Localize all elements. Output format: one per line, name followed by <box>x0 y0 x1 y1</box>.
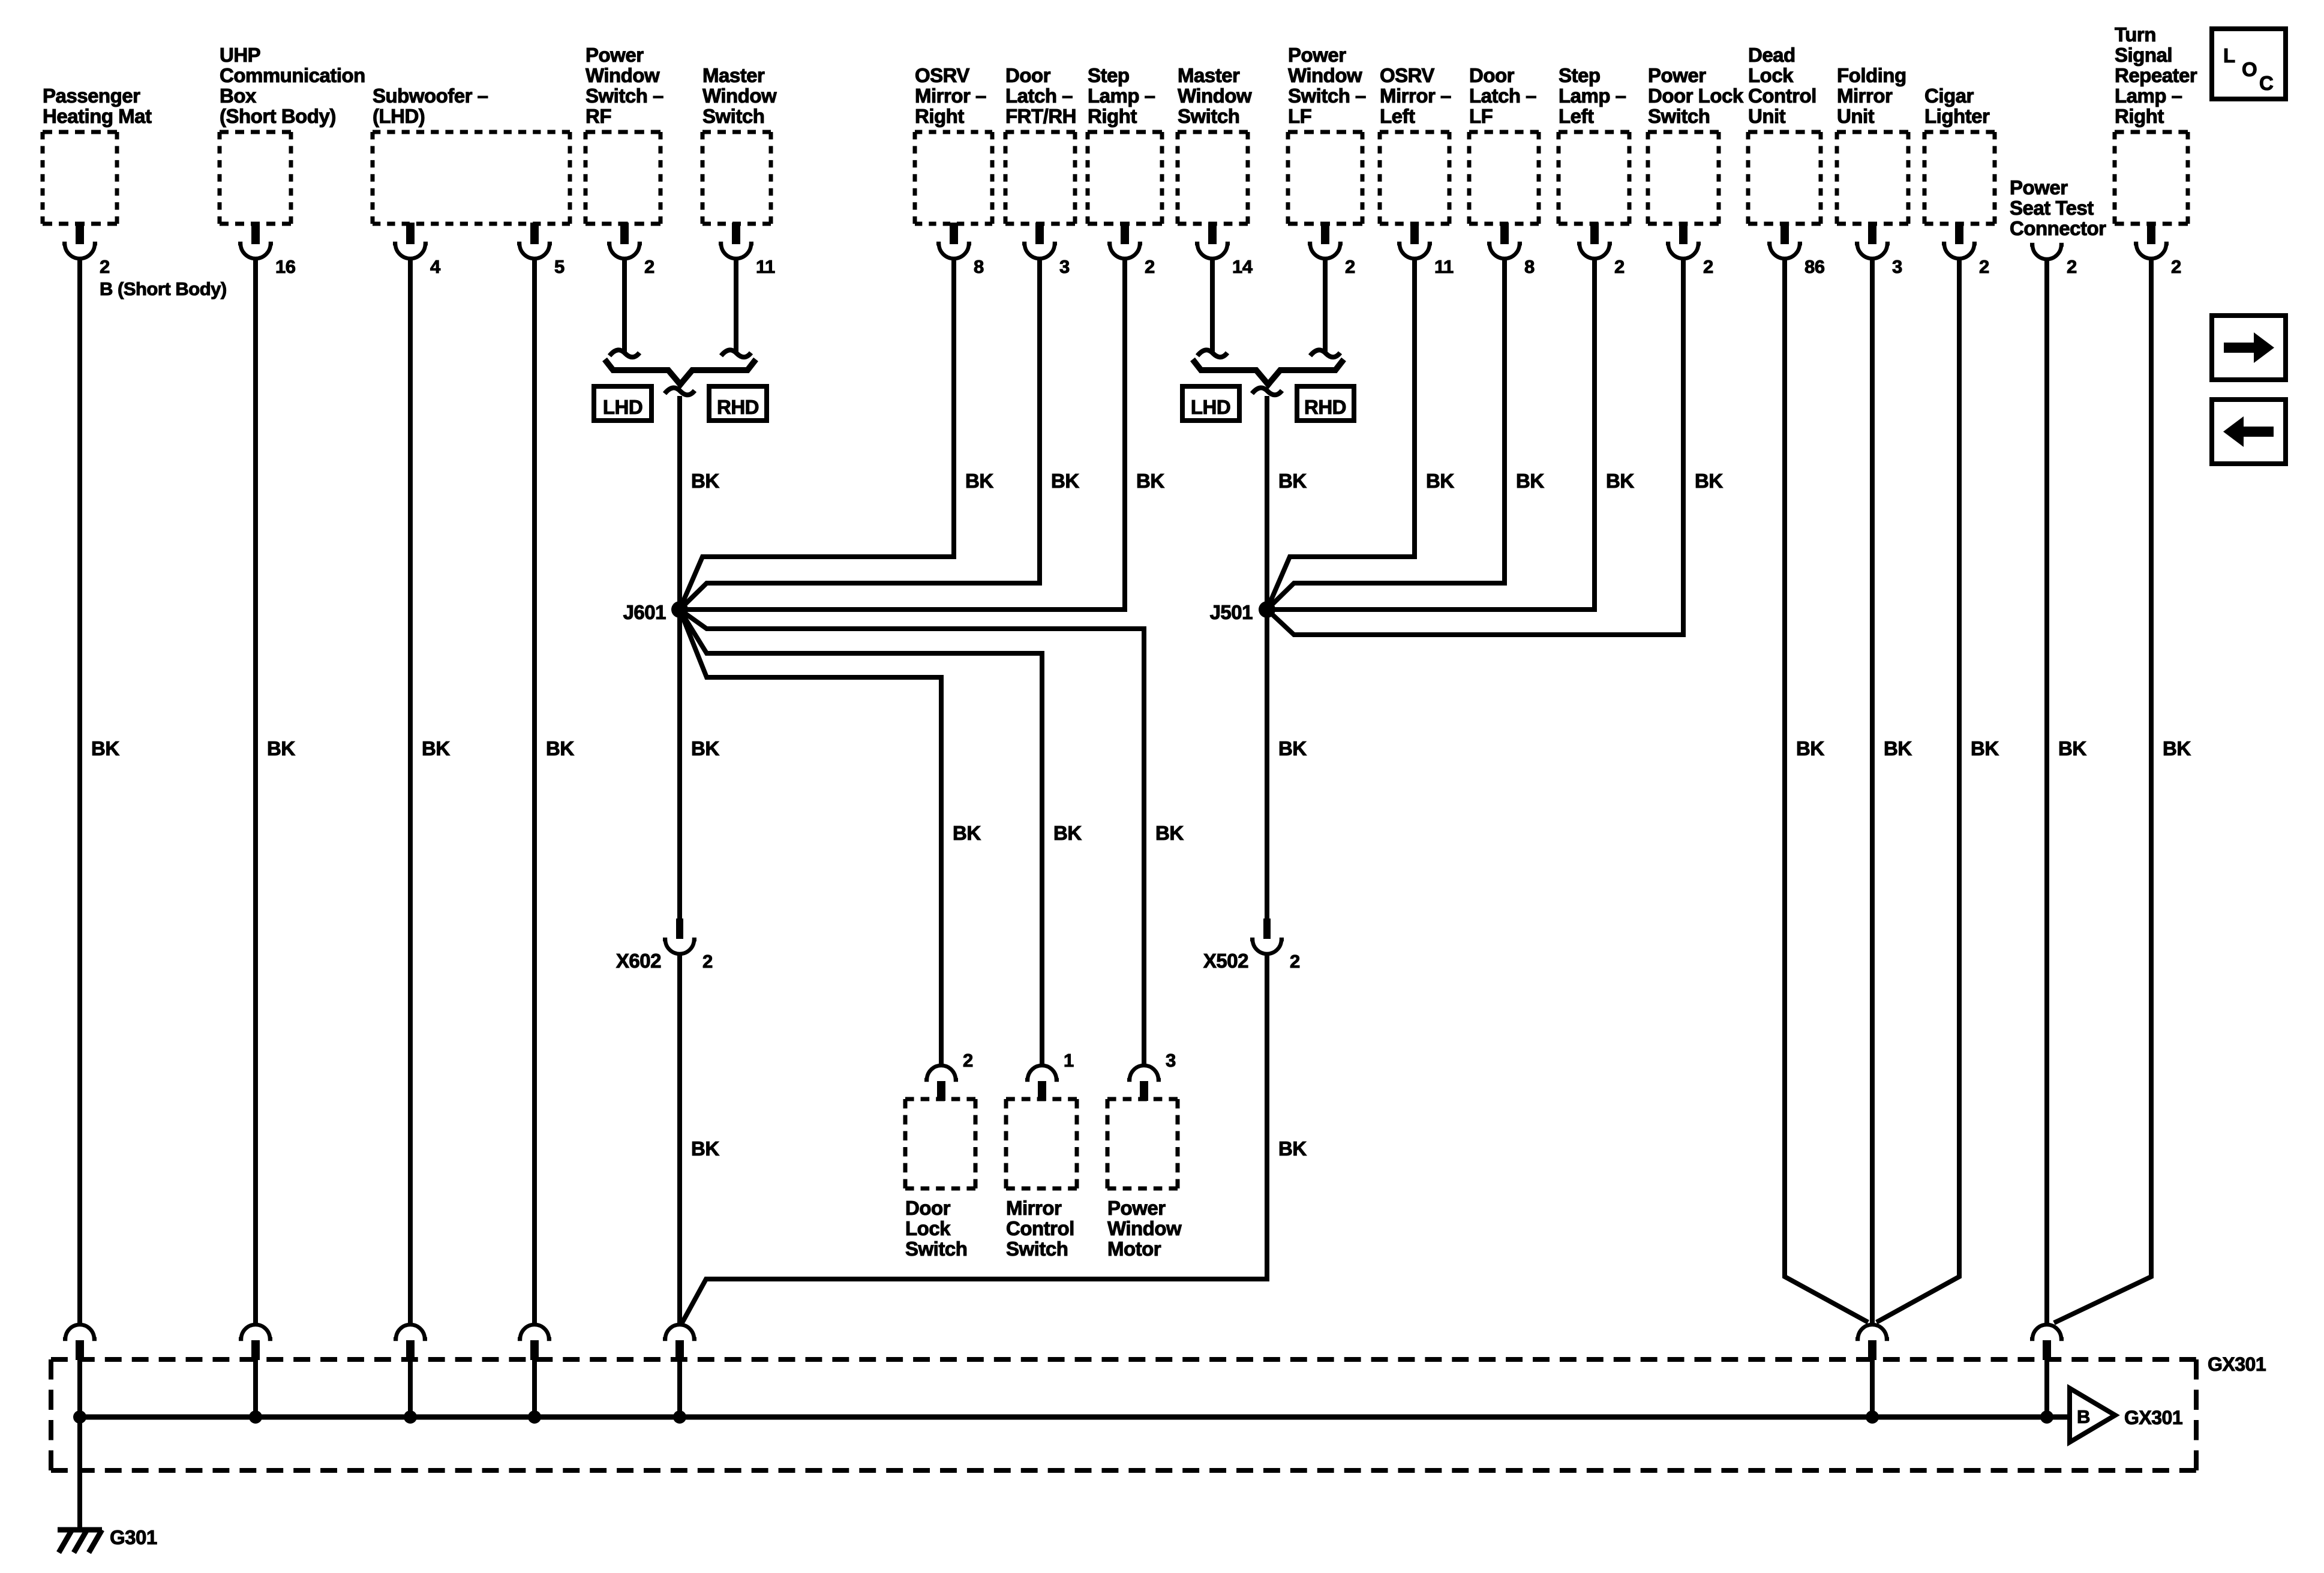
connector into GX301: Power Seat/Turn Signal <box>2030 1325 2064 1417</box>
svg-text:16: 16 <box>275 256 296 277</box>
svg-text:Subwoofer –: Subwoofer – <box>373 85 488 107</box>
svg-text:Unit: Unit <box>1748 105 1786 127</box>
svg-text:Switch: Switch <box>1178 105 1239 127</box>
svg-text:LF: LF <box>1469 105 1493 127</box>
wire: Power Window Switch RF to LHD brace <box>609 257 639 357</box>
svg-text:Motor: Motor <box>1107 1238 1161 1260</box>
svg-text:BK: BK <box>2058 737 2086 760</box>
junction dot on bus at x=426 <box>249 1410 262 1424</box>
svg-text:BK: BK <box>1053 822 1082 844</box>
svg-text:Left: Left <box>1380 105 1415 127</box>
component box: UHP Communication Box <box>220 44 365 277</box>
wire BK: UHP Communication Box to GX301 <box>253 257 258 1323</box>
option tag: RHD (left) <box>709 386 767 421</box>
svg-text:BK: BK <box>691 737 719 760</box>
svg-text:J601: J601 <box>623 601 666 623</box>
svg-text:RHD: RHD <box>717 396 759 418</box>
svg-text:11: 11 <box>756 256 775 277</box>
wire colour label BK at (1590,813) <box>965 470 993 492</box>
svg-text:BK: BK <box>1884 737 1912 760</box>
component box: Power Window Motor <box>1107 1050 1182 1260</box>
svg-text:3: 3 <box>1892 256 1902 277</box>
wire: OSRV Mirror Right to J601 <box>680 257 954 610</box>
brace: LHD/RHD option merge (right) <box>1193 359 1344 395</box>
connector: Power Seat Test Connector <box>2010 176 2106 277</box>
svg-text:Right: Right <box>915 105 964 127</box>
wire colour label BK at (2358,813) <box>1426 470 1454 492</box>
component box: Cigar Lighter <box>1924 85 1995 277</box>
svg-text:Connector: Connector <box>2010 217 2106 239</box>
wire colour label BK at (133,1259) <box>91 737 119 760</box>
svg-text:Power: Power <box>1288 44 1346 66</box>
wire BK: J501 to X502 <box>1265 610 1269 918</box>
wire: Power Door Lock Switch to J501 <box>1267 257 1683 635</box>
svg-text:(Short Body): (Short Body) <box>220 105 336 127</box>
component box: Step Lamp - Left <box>1559 64 1629 277</box>
svg-text:BK: BK <box>1516 470 1544 492</box>
component box: Turn Signal Repeater Lamp - Right <box>2115 23 2197 277</box>
component box: OSRV Mirror - Left <box>1380 64 1454 277</box>
svg-text:Cigar: Cigar <box>1924 85 1974 107</box>
wire colour label BK at (1875,813) <box>1136 470 1164 492</box>
svg-text:3: 3 <box>1166 1050 1176 1071</box>
connector into GX301: X602 branch <box>663 1325 696 1417</box>
svg-text:Power: Power <box>1107 1197 1166 1219</box>
wire BK: X602 to GX301 <box>677 953 682 1323</box>
component box: Mirror Control Switch <box>1006 1050 1077 1260</box>
svg-text:Window: Window <box>1107 1217 1182 1239</box>
svg-text:11: 11 <box>1434 256 1454 277</box>
wire colour label BK at (2508,813) <box>1516 470 1544 492</box>
svg-text:Lamp –: Lamp – <box>1559 85 1626 107</box>
svg-text:4: 4 <box>430 256 441 277</box>
wire BK: Subwoofer pin 4 to GX301 <box>408 257 413 1323</box>
svg-text:Step: Step <box>1559 64 1601 86</box>
svg-text:BK: BK <box>91 737 119 760</box>
connector into GX301: UHP Communication Box <box>239 1325 272 1417</box>
svg-text:BK: BK <box>546 737 574 760</box>
svg-text:Switch: Switch <box>702 105 764 127</box>
wire: Step Lamp Left to J501 <box>1267 257 1595 610</box>
ground splice pack GX301 (dashed outline) <box>51 1353 2266 1470</box>
svg-text:Door Lock: Door Lock <box>1648 85 1744 107</box>
svg-text:Power: Power <box>1648 64 1706 86</box>
svg-text:Turn: Turn <box>2115 23 2156 46</box>
wire colour label BK at (3121,1259) <box>1884 737 1912 760</box>
svg-text:Master: Master <box>1178 64 1240 86</box>
wire BK: Turn Signal Repeater Lamp drop <box>2054 257 2151 1323</box>
component box: Subwoofer (LHD) <box>373 85 570 277</box>
svg-text:Lamp –: Lamp – <box>2115 85 2182 107</box>
LOC legend box <box>2212 29 2286 99</box>
wire: J601 to Mirror Control Switch <box>680 610 1042 1064</box>
svg-text:Seat Test: Seat Test <box>2010 197 2094 219</box>
wire colour label BK at (1733,813) <box>1051 470 1079 492</box>
wire BK: brace to J501 <box>1265 396 1269 610</box>
svg-text:Master: Master <box>702 64 765 86</box>
svg-text:Power: Power <box>585 44 644 66</box>
wire colour label BK at (1133,1926) <box>691 1137 719 1160</box>
svg-text:RHD: RHD <box>1304 396 1346 418</box>
svg-text:GX301: GX301 <box>2208 1353 2266 1375</box>
wire colour label BK at (1133,1259) <box>691 737 719 760</box>
component box: Folding Mirror Unit <box>1837 64 1908 277</box>
svg-text:8: 8 <box>974 256 984 277</box>
wire BK: Power Seat Test Connector drop <box>2044 259 2049 1323</box>
splice J601 <box>623 601 688 623</box>
wire BK: Dead Lock Control Unit drop <box>1785 257 1868 1322</box>
svg-text:2: 2 <box>1145 256 1155 277</box>
wire: Door Latch LF to J501 <box>1267 257 1505 610</box>
wire BK: Folding Mirror Unit drop <box>1870 257 1875 1323</box>
svg-text:BK: BK <box>267 737 295 760</box>
svg-text:2: 2 <box>644 256 654 277</box>
junction dot on bus at x=3121 <box>1866 1410 1879 1424</box>
left arrow box <box>2212 400 2286 464</box>
svg-text:86: 86 <box>1804 256 1825 277</box>
junction dot on bus at x=3412 <box>2040 1410 2053 1424</box>
svg-text:LHD: LHD <box>603 396 642 418</box>
junction dot on bus at x=684 <box>404 1410 417 1424</box>
wire BK: brace to J601 <box>677 396 682 610</box>
wire: Master Window Switch to RHD brace <box>721 257 751 357</box>
svg-text:2: 2 <box>2171 256 2181 277</box>
wire colour label BK at (1737,1400) <box>1053 822 1082 844</box>
wire colour label BK at (891,1259) <box>546 737 574 760</box>
svg-text:O: O <box>2242 58 2257 80</box>
connector into GX301: Subwoofer pin 5 <box>518 1325 551 1417</box>
svg-text:BK: BK <box>1155 822 1184 844</box>
svg-text:GX301: GX301 <box>2124 1407 2182 1428</box>
svg-text:BK: BK <box>953 822 981 844</box>
svg-text:BK: BK <box>1051 470 1079 492</box>
svg-text:OSRV: OSRV <box>1380 64 1434 86</box>
svg-text:2: 2 <box>100 256 110 277</box>
svg-text:LF: LF <box>1288 105 1311 127</box>
wire: OSRV Mirror Left to J501 <box>1267 257 1415 610</box>
junction dot on bus at x=1133 <box>673 1410 686 1424</box>
wire colour label BK at (1133,813) <box>691 470 719 492</box>
svg-text:BK: BK <box>1278 737 1307 760</box>
wire: Power Window Switch LF to brace <box>1310 257 1340 357</box>
wire: Door Latch FRT/RH to J601 <box>680 257 1040 610</box>
svg-text:Communication: Communication <box>220 64 365 86</box>
component box: Dead Lock Control Unit <box>1748 44 1825 277</box>
svg-text:G301: G301 <box>110 1526 157 1548</box>
wire: J601 to Power Window Motor <box>680 610 1144 1064</box>
svg-text:1: 1 <box>1064 1050 1074 1071</box>
svg-text:BK: BK <box>1695 470 1723 492</box>
svg-text:BK: BK <box>1426 470 1454 492</box>
svg-text:2: 2 <box>1979 256 1989 277</box>
svg-text:BK: BK <box>422 737 450 760</box>
wire colour label BK at (1907,1400) <box>1155 822 1184 844</box>
connector into GX301: Passenger Heating Mat <box>63 1325 97 1417</box>
svg-text:J501: J501 <box>1210 601 1253 623</box>
option tag: LHD (right) <box>1182 386 1239 421</box>
svg-text:BK: BK <box>691 470 719 492</box>
svg-text:Latch –: Latch – <box>1005 85 1073 107</box>
svg-text:(LHD): (LHD) <box>373 105 425 127</box>
svg-text:2: 2 <box>1703 256 1713 277</box>
svg-text:FRT/RH: FRT/RH <box>1005 105 1076 127</box>
svg-text:2: 2 <box>1290 951 1300 972</box>
component box: Master Window Switch (LHD) <box>1178 64 1253 277</box>
svg-text:X502: X502 <box>1203 950 1248 972</box>
connector into GX301: Subwoofer pin 4 <box>394 1325 427 1417</box>
ground bus wire <box>80 1415 2069 1420</box>
svg-text:Dead: Dead <box>1748 44 1795 66</box>
svg-text:OSRV: OSRV <box>915 64 969 86</box>
option tag: RHD (right) <box>1297 386 1354 421</box>
svg-text:BK: BK <box>1796 737 1824 760</box>
splice J501 <box>1210 601 1275 623</box>
wire colour label BK at (2112,1926) <box>1278 1137 1307 1160</box>
svg-text:Mirror: Mirror <box>1006 1197 1062 1219</box>
svg-text:Door: Door <box>1469 64 1515 86</box>
svg-text:LHD: LHD <box>1191 396 1230 418</box>
svg-text:Heating Mat: Heating Mat <box>43 105 152 127</box>
wire: GX301 to G301 ground <box>77 1417 82 1529</box>
svg-text:Window: Window <box>702 85 777 107</box>
svg-text:BK: BK <box>1971 737 1999 760</box>
svg-text:Switch: Switch <box>905 1238 967 1260</box>
pin label: B (Short Body) <box>100 278 227 299</box>
inline connector X502 pin 2 <box>1203 918 1300 972</box>
svg-text:Unit: Unit <box>1837 105 1875 127</box>
svg-text:Step: Step <box>1088 64 1130 86</box>
component box: Power Window Switch - RF <box>585 44 663 277</box>
svg-text:Passenger: Passenger <box>43 85 140 107</box>
connector into GX301: Dead Lock/Folding Mirror/Cigar Lighter <box>1855 1325 1889 1417</box>
wire: Step Lamp Right to J601 <box>680 257 1125 610</box>
svg-text:Left: Left <box>1559 105 1594 127</box>
wire colour label BK at (3412,1259) <box>2058 737 2086 760</box>
svg-text:Lighter: Lighter <box>1924 105 1990 127</box>
wire BK: Cigar Lighter drop <box>1876 257 1959 1322</box>
svg-text:Mirror: Mirror <box>1837 85 1893 107</box>
component box: OSRV Mirror - Right <box>915 64 992 277</box>
wire colour label BK at (2658,813) <box>1606 470 1634 492</box>
wire colour label BK at (2112,813) <box>1278 470 1307 492</box>
svg-text:Right: Right <box>1088 105 1137 127</box>
wire colour label BK at (684,1259) <box>422 737 450 760</box>
svg-text:RF: RF <box>585 105 611 127</box>
svg-text:Switch –: Switch – <box>585 85 663 107</box>
wire BK: Subwoofer pin 5 to GX301 <box>532 257 537 1323</box>
svg-text:Door: Door <box>1005 64 1051 86</box>
svg-text:B: B <box>2077 1406 2090 1427</box>
component box: Door Latch - FRT/RH <box>1005 64 1076 277</box>
svg-text:3: 3 <box>1059 256 1070 277</box>
svg-text:2: 2 <box>1614 256 1625 277</box>
svg-text:BK: BK <box>1278 1137 1307 1160</box>
brace: LHD/RHD option merge (left) <box>605 359 756 395</box>
svg-text:B (Short Body): B (Short Body) <box>100 278 227 299</box>
svg-text:Right: Right <box>2115 105 2164 127</box>
svg-text:Door: Door <box>905 1197 951 1219</box>
svg-text:Lamp –: Lamp – <box>1088 85 1155 107</box>
svg-text:BK: BK <box>1278 470 1307 492</box>
svg-text:Signal: Signal <box>2115 44 2172 66</box>
svg-text:Control: Control <box>1006 1217 1074 1239</box>
wire colour label BK at (2975,1259) <box>1796 737 1824 760</box>
wire colour label BK at (2112,1259) <box>1278 737 1307 760</box>
svg-text:L: L <box>2223 44 2235 67</box>
component box: Power Window Switch - LF <box>1288 44 1366 277</box>
svg-text:2: 2 <box>702 951 713 972</box>
svg-text:Control: Control <box>1748 85 1816 107</box>
junction dot on bus at x=133 <box>73 1410 86 1424</box>
inline connector X602 pin 2 <box>616 918 713 972</box>
wire BK: Passenger Heating Mat to GX301 <box>77 257 82 1323</box>
svg-text:BK: BK <box>1606 470 1634 492</box>
svg-text:BK: BK <box>1136 470 1164 492</box>
svg-text:Power: Power <box>2010 176 2068 199</box>
svg-text:BK: BK <box>691 1137 719 1160</box>
svg-text:Folding: Folding <box>1837 64 1906 86</box>
component box: Passenger Heating Mat <box>43 85 152 277</box>
svg-text:Switch –: Switch – <box>1288 85 1366 107</box>
svg-text:C: C <box>2259 72 2273 94</box>
svg-text:2: 2 <box>2067 256 2077 277</box>
svg-text:BK: BK <box>2163 737 2191 760</box>
svg-text:BK: BK <box>965 470 993 492</box>
option tag: LHD (left) <box>594 386 651 421</box>
svg-text:Window: Window <box>1288 64 1362 86</box>
svg-text:Window: Window <box>1178 85 1252 107</box>
svg-text:2: 2 <box>963 1050 973 1071</box>
component box: Step Lamp - Right <box>1088 64 1162 277</box>
ground symbol G301 <box>58 1526 157 1553</box>
wire: J601 to Door Lock Switch <box>680 610 941 1064</box>
svg-text:Switch: Switch <box>1006 1238 1068 1260</box>
wire BK: J601 to X602 <box>677 610 682 918</box>
svg-text:Repeater: Repeater <box>2115 64 2197 86</box>
wire colour label BK at (426,1259) <box>267 737 295 760</box>
svg-text:8: 8 <box>1524 256 1535 277</box>
net arrow: B > GX301 <box>2070 1388 2182 1442</box>
wire colour label BK at (3586,1259) <box>2163 737 2191 760</box>
component box: Door Latch - LF <box>1469 64 1539 277</box>
svg-text:Mirror –: Mirror – <box>915 85 986 107</box>
component box: Power Door Lock Switch <box>1648 64 1744 277</box>
wire colour label BK at (2806,813) <box>1695 470 1723 492</box>
svg-text:UHP: UHP <box>220 44 260 66</box>
junction dot on bus at x=891 <box>528 1410 541 1424</box>
svg-text:Mirror –: Mirror – <box>1380 85 1451 107</box>
component box: Door Lock Switch <box>905 1050 975 1260</box>
svg-text:Lock: Lock <box>1748 64 1794 86</box>
component box: Master Window Switch (RHD) <box>702 64 777 277</box>
svg-text:Switch: Switch <box>1648 105 1710 127</box>
wire BK: X502 down and over to GX301 <box>682 953 1267 1323</box>
right arrow box <box>2212 316 2286 380</box>
svg-text:Window: Window <box>585 64 660 86</box>
svg-text:14: 14 <box>1232 256 1253 277</box>
svg-text:Box: Box <box>220 85 257 107</box>
svg-text:2: 2 <box>1345 256 1355 277</box>
svg-text:X602: X602 <box>616 950 661 972</box>
wire colour label BK at (1569,1400) <box>953 822 981 844</box>
svg-text:Lock: Lock <box>905 1217 951 1239</box>
wire: Master Window Switch (LHD) to brace <box>1197 257 1227 357</box>
svg-text:5: 5 <box>554 256 565 277</box>
svg-text:Latch –: Latch – <box>1469 85 1536 107</box>
wire colour label BK at (3266,1259) <box>1971 737 1999 760</box>
